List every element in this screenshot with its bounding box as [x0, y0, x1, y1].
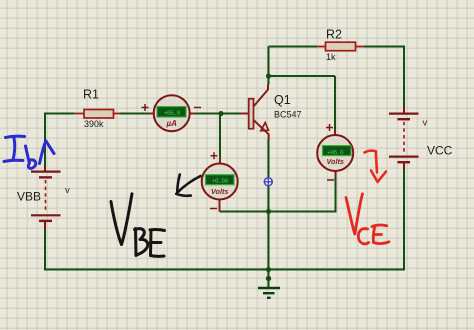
- wire top-left horizontal to R1: [44, 113, 74, 115]
- voltmeter VBE display: [206, 175, 235, 185]
- battery VCC: [389, 106, 419, 169]
- svg-text:v: v: [423, 118, 428, 129]
- battery VBB: [31, 166, 61, 229]
- annotation VCE (red handwriting): [346, 194, 389, 244]
- wire collector junction to VCE meter: [269, 75, 336, 77]
- wire down to VCE meter top: [334, 76, 336, 131]
- annotation arrow (black): [176, 175, 200, 196]
- svg-text:v: v: [65, 185, 70, 196]
- wire VBE meter bottom to emitter net: [220, 211, 336, 213]
- svg-text:Q1: Q1: [274, 93, 291, 107]
- ammeter body: [154, 95, 190, 131]
- ammeter minus sign: [194, 107, 201, 109]
- resistor R2: [317, 42, 364, 51]
- wire top horizontal left of R2: [269, 46, 318, 48]
- wire R1 to ammeter: [120, 113, 150, 115]
- node junction emitter/meter net: [266, 209, 271, 214]
- svg-text:R1: R1: [83, 88, 99, 102]
- wire up to VCE meter bottom: [335, 176, 337, 213]
- svg-text:BC547: BC547: [274, 110, 302, 120]
- transistor Q1 base bar: [249, 99, 254, 129]
- voltmeter VCE minus sign: [327, 179, 334, 181]
- transistor Q1 emitter stroke: [254, 120, 269, 140]
- svg-text:390k: 390k: [84, 119, 104, 129]
- ground: [258, 288, 280, 298]
- wire collector top vertical: [268, 47, 270, 85]
- node collector junction: [266, 73, 271, 78]
- node junction at base wire: [218, 111, 223, 116]
- voltmeter VBE pins: [219, 158, 222, 212]
- voltmeter VBE minus sign: [210, 208, 217, 210]
- resistor R1: [74, 110, 120, 119]
- voltmeter VCE display: [323, 146, 352, 157]
- origin marker (blue) on emitter wire: [264, 177, 273, 186]
- wire VBB top vertical: [44, 114, 46, 167]
- wire VCC top vertical: [403, 46, 405, 107]
- svg-text:+05.0: +05.0: [327, 149, 344, 156]
- annotation Ib (blue handwriting): [4, 136, 54, 168]
- wire top horizontal right of R2: [364, 46, 404, 48]
- wire ammeter to base: [194, 113, 241, 115]
- voltmeter VCE plus sign: [326, 124, 333, 131]
- wire ground stub: [268, 270, 270, 288]
- svg-text:Volts: Volts: [211, 187, 228, 196]
- svg-text:VCC: VCC: [427, 144, 453, 158]
- voltmeter VCE body: [317, 135, 353, 171]
- wire VBB bottom to bottom rail: [44, 228, 46, 271]
- annotation red arrow: [365, 151, 387, 182]
- node ground stub junction: [266, 276, 271, 281]
- voltmeter VCE pins: [334, 130, 337, 177]
- svg-text:VBB: VBB: [17, 190, 41, 204]
- ammeter plus sign: [142, 104, 149, 111]
- voltmeter VBE body: [202, 164, 238, 200]
- voltmeter VBE plus sign: [211, 152, 218, 159]
- wire emitter vertical: [268, 139, 270, 270]
- annotation VBE (black handwriting): [111, 194, 165, 257]
- ammeter U-A pins: [149, 113, 195, 115]
- transistor Q1 base pin: [241, 113, 249, 115]
- transistor Q1 collector stroke: [254, 85, 269, 107]
- svg-text:µA: µA: [166, 119, 178, 128]
- wire VCC bottom to bottom rail: [44, 168, 404, 270]
- svg-text:+0.00: +0.00: [212, 178, 229, 185]
- transistor Q1 emitter arrowhead: [261, 123, 269, 131]
- svg-text:R2: R2: [326, 28, 342, 42]
- wire junction down to voltmeter VBE: [219, 114, 221, 159]
- svg-text:1k: 1k: [326, 52, 336, 62]
- ammeter display: [157, 107, 186, 117]
- svg-text:+05.0: +05.0: [164, 110, 181, 117]
- svg-text:Volts: Volts: [327, 157, 344, 166]
- node bottom rail junction: [266, 267, 271, 272]
